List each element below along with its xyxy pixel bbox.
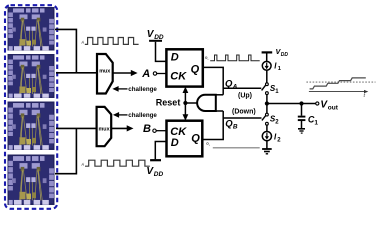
node A terminal circle <box>153 72 156 75</box>
wire chip2 to mux1 <box>56 72 97 74</box>
switch S2 <box>262 113 279 125</box>
AND gate input stubs <box>216 94 223 96</box>
clock waveform 2 (bottom) <box>85 160 150 166</box>
D flip-flop U3 (top) <box>166 49 202 86</box>
node B terminal circle <box>153 129 156 132</box>
VDD supply for FF2 D input <box>146 142 166 179</box>
clock waveform 1 (top) <box>85 38 139 45</box>
down waveform tiny label <box>207 143 209 145</box>
wire S2 to I2 <box>266 125 268 131</box>
mux U2 (bottom) <box>97 107 112 146</box>
svg-text:t: t <box>364 93 366 99</box>
svg-text:out: out <box>328 104 339 111</box>
svg-text:A: A <box>141 68 150 80</box>
reset net vertical wire with arrows <box>183 87 199 121</box>
challenge arrow 1 <box>118 88 128 90</box>
wire chip3 to mux2 <box>56 127 97 129</box>
up waveform tiny label <box>205 57 207 59</box>
mux2 output wire to node B <box>111 127 127 129</box>
switch S1 <box>262 83 280 95</box>
chip photo 4 <box>8 155 55 206</box>
wire S1 to node <box>266 94 268 113</box>
VDD supply for I1 <box>262 47 289 62</box>
svg-text:challenge: challenge <box>128 112 157 119</box>
svg-text:A: A <box>232 84 238 91</box>
svg-text:1: 1 <box>275 89 279 95</box>
challenge arrow 2 <box>118 114 128 116</box>
svg-text:Reset: Reset <box>156 98 181 108</box>
ground under I2 <box>262 141 272 154</box>
chip photo 2 <box>8 54 55 98</box>
svg-text:DD: DD <box>281 52 289 58</box>
wire I1 to S1 <box>266 70 268 83</box>
capacitor C1 <box>298 104 319 129</box>
svg-text:D: D <box>171 137 179 149</box>
svg-text:2: 2 <box>275 119 279 125</box>
up pulse train waveform <box>210 55 259 61</box>
chip photo 3 <box>8 102 55 150</box>
current source I1 <box>262 61 281 72</box>
svg-text:mux: mux <box>99 69 110 75</box>
current source I2 <box>262 132 281 144</box>
wire B to FF2 CK <box>156 130 166 132</box>
output node junction dot <box>265 101 269 105</box>
clock waveform 2 tick <box>82 163 84 165</box>
wire chip1 to mux1 <box>55 29 76 72</box>
svg-text:B: B <box>143 123 151 135</box>
svg-text:1: 1 <box>314 120 318 127</box>
Vout terminal circle <box>316 102 319 105</box>
wire A to FF1 CK <box>157 73 167 75</box>
VDD supply for FF1 D input <box>147 29 167 61</box>
mux U1 (top) <box>97 54 113 94</box>
AND gate U5 (reset, output faces left) <box>197 95 216 111</box>
wire chip4 to mux2 <box>55 128 76 173</box>
down waveform flat line <box>213 147 260 149</box>
svg-text:B: B <box>233 124 238 131</box>
svg-text:mux: mux <box>99 126 110 132</box>
dashed chip-array enclosure box <box>5 5 57 209</box>
svg-text:D: D <box>171 52 179 64</box>
svg-text:CK: CK <box>170 70 187 82</box>
svg-text:DD: DD <box>154 171 164 178</box>
output node wire to Vout <box>267 103 316 105</box>
wire QA: FF1 Q to S1 and AND <box>203 67 223 94</box>
svg-text:2: 2 <box>277 138 281 144</box>
D flip-flop U4 (bottom) <box>167 121 203 157</box>
C1 junction dot <box>299 101 303 105</box>
wire QB: FF2 Q to S2 and AND <box>202 111 223 140</box>
svg-text:(Up): (Up) <box>238 92 252 99</box>
clock waveform 1 tick <box>82 41 84 43</box>
chip photo 1 <box>8 7 55 51</box>
svg-text:1: 1 <box>278 66 282 72</box>
svg-text:Q: Q <box>191 133 200 145</box>
svg-text:Q: Q <box>191 63 200 75</box>
Vout staircase waveform sketch <box>306 78 375 99</box>
mux1 output wire to node A <box>113 72 132 74</box>
svg-text:challenge: challenge <box>128 86 157 93</box>
svg-text:(Down): (Down) <box>232 109 256 116</box>
ground under C1 <box>298 129 305 133</box>
